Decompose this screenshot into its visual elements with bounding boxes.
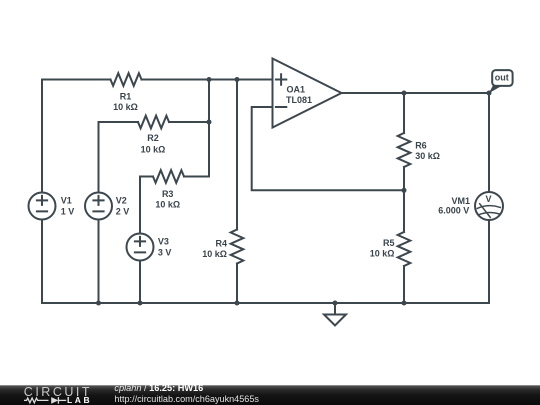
wire R5 bottom lead (403, 266, 405, 303)
wire voltmeter top (488, 93, 490, 192)
resistor R5 (398, 232, 411, 266)
wire V2 bottom (98, 220, 100, 304)
svg-text:R3: R3 (162, 189, 174, 199)
wire R3 to node (184, 176, 209, 178)
wire R6 bottom lead (403, 167, 405, 190)
node feedback R6/R5 (402, 188, 407, 193)
svg-text:30 kΩ: 30 kΩ (415, 151, 440, 161)
svg-text:V3: V3 (158, 237, 169, 247)
svg-text:cplahn / 16.25: HW16: cplahn / 16.25: HW16 (114, 383, 203, 393)
voltmeter VM1 (475, 192, 503, 220)
wire op-amp output (342, 92, 490, 94)
wire top rail right (142, 79, 273, 81)
wire V2 to R2 (99, 122, 139, 193)
wire R4 top lead (236, 80, 238, 230)
svg-text:TL081: TL081 (286, 95, 312, 105)
node out (487, 91, 492, 96)
svg-text:R1: R1 (120, 91, 132, 101)
wire R5 top lead (403, 190, 405, 232)
wire V1 bottom (41, 220, 43, 304)
node ground symbol (333, 301, 338, 306)
resistor R2 (138, 116, 169, 129)
wire R6 top lead (403, 93, 405, 133)
svg-text:V2: V2 (116, 196, 127, 206)
node output R6 (402, 91, 407, 96)
CircuitLab logo diode triangle (51, 397, 58, 404)
node R5 ground rail (402, 301, 407, 306)
resistor R6 (398, 133, 411, 167)
svg-text:LAB: LAB (67, 395, 92, 405)
resistor R3 (153, 170, 184, 183)
CircuitLab logo resistor-diode glyph (24, 397, 66, 404)
voltage source V1 (29, 193, 56, 220)
wire bottom rail (42, 302, 489, 304)
wire V1 top (41, 80, 43, 193)
wire V3 to R3 (140, 177, 153, 234)
svg-text:6.000 V: 6.000 V (438, 205, 469, 215)
resistor R4 (231, 230, 244, 264)
ground (324, 303, 346, 326)
svg-text:V1: V1 (61, 196, 72, 206)
svg-text:http://circuitlab.com/ch6ayukn: http://circuitlab.com/ch6ayukn4565s (114, 394, 259, 404)
voltage source V2 (85, 193, 112, 220)
svg-text:10 kΩ: 10 kΩ (141, 145, 166, 155)
wire top rail left (42, 79, 111, 81)
node V3 ground rail (138, 301, 143, 306)
wire voltmeter bottom (488, 220, 490, 303)
node dots (96, 77, 492, 306)
resistor R1 (111, 73, 142, 86)
op-amp minus input symbol (276, 106, 286, 108)
footer bar (0, 385, 540, 405)
wire junction column (208, 80, 210, 177)
svg-text:VM1: VM1 (451, 196, 470, 206)
svg-text:V: V (485, 194, 491, 204)
node R4 ground rail (235, 301, 240, 306)
svg-text:R4: R4 (215, 238, 227, 248)
op-amp OA1 (273, 59, 342, 128)
node R1-R2 column top (207, 77, 212, 82)
svg-text:3 V: 3 V (158, 248, 172, 258)
wire R2 to node (169, 121, 209, 123)
svg-text:10 kΩ: 10 kΩ (370, 248, 395, 258)
svg-text:10 kΩ: 10 kΩ (202, 249, 227, 259)
svg-text:R6: R6 (415, 140, 427, 150)
node R4 top (235, 77, 240, 82)
wire R4 bottom lead (236, 264, 238, 304)
wire inverting feedback (252, 107, 404, 190)
svg-text:10 kΩ: 10 kΩ (155, 200, 180, 210)
svg-text:R2: R2 (147, 133, 159, 143)
svg-text:out: out (495, 73, 509, 83)
out flag (489, 70, 513, 93)
node V2 ground rail (96, 301, 101, 306)
svg-text:10 kΩ: 10 kΩ (113, 102, 138, 112)
op-amp plus input symbol (276, 74, 286, 84)
wire V3 bottom (139, 261, 141, 304)
voltage source V3 (127, 234, 154, 261)
node R2 out (207, 120, 212, 125)
svg-text:OA1: OA1 (287, 85, 306, 95)
svg-text:1 V: 1 V (61, 206, 75, 216)
svg-text:2 V: 2 V (116, 206, 130, 216)
svg-text:R5: R5 (383, 238, 395, 248)
